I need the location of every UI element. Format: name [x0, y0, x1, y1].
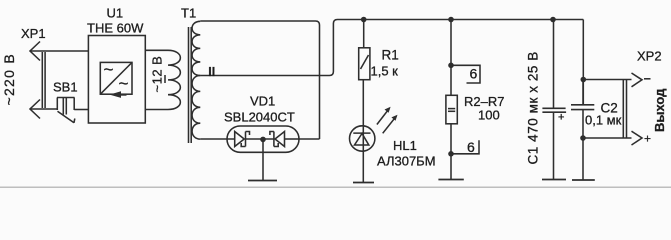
- svg-text:HL1: HL1: [393, 138, 417, 153]
- svg-text:THE 60W: THE 60W: [87, 21, 144, 36]
- svg-text:XP1: XP1: [21, 26, 46, 41]
- svg-text:100: 100: [478, 108, 500, 123]
- svg-text:~: ~: [104, 60, 114, 79]
- svg-text:SBL2040CT: SBL2040CT: [224, 110, 295, 125]
- svg-text:II: II: [208, 65, 215, 79]
- svg-text:0,1 мк: 0,1 мк: [585, 113, 622, 128]
- svg-text:6: 6: [467, 139, 475, 155]
- svg-text:~12 В: ~12 В: [150, 56, 165, 93]
- svg-text:T1: T1: [181, 5, 196, 20]
- svg-text:1,5 к: 1,5 к: [371, 64, 399, 79]
- svg-text:6: 6: [470, 66, 478, 82]
- svg-text:~: ~: [119, 74, 129, 93]
- svg-text:+: +: [644, 132, 651, 146]
- svg-text:АЛ307БМ: АЛ307БМ: [377, 154, 436, 169]
- svg-text:U1: U1: [107, 6, 124, 21]
- svg-text:XP2: XP2: [637, 49, 662, 64]
- svg-text:SB1: SB1: [53, 80, 78, 95]
- svg-text:С1 470 мк х 25 В: С1 470 мк х 25 В: [526, 51, 541, 164]
- svg-text:VD1: VD1: [250, 94, 275, 109]
- svg-text:Выход: Выход: [652, 88, 667, 132]
- svg-text:R1: R1: [382, 48, 399, 63]
- svg-text:~220 В: ~220 В: [1, 53, 17, 106]
- svg-text:+: +: [558, 112, 564, 124]
